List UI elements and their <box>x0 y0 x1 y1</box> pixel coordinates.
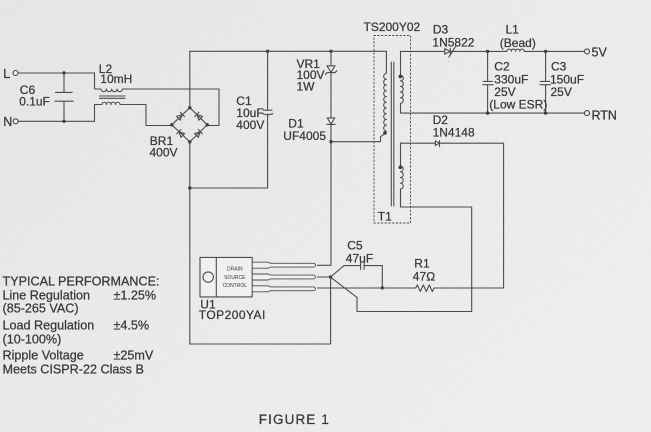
svg-text:N: N <box>3 115 12 129</box>
svg-text:D3: D3 <box>433 22 449 36</box>
svg-text:10mH: 10mH <box>100 72 132 86</box>
svg-text:400V: 400V <box>236 118 264 132</box>
label T1 <box>378 210 392 224</box>
svg-text:1N4148: 1N4148 <box>433 126 475 140</box>
node L terminal <box>13 71 18 76</box>
node RTN terminal <box>585 111 590 116</box>
inductor L1 <box>507 49 524 51</box>
svg-text:(Bead): (Bead) <box>500 36 536 50</box>
label C1 value <box>236 94 264 132</box>
label TS200Y02 <box>364 20 421 34</box>
node T1 primary dot <box>383 131 387 135</box>
capacitor C3 <box>540 51 550 113</box>
label RTN <box>592 108 617 122</box>
wire D3 to L1 <box>450 50 507 52</box>
svg-text:T1: T1 <box>378 210 392 224</box>
op-amp U1 package body <box>200 257 252 297</box>
label D1 value <box>283 117 326 143</box>
diode D1 <box>327 73 335 266</box>
transformer T1 dashed box <box>374 36 411 224</box>
svg-text:Load Regulation: Load Regulation <box>3 318 95 332</box>
diode BR1 top-left <box>176 112 184 120</box>
svg-text:(10-100%): (10-100%) <box>3 333 62 347</box>
label 5V <box>592 46 608 60</box>
wire bias return <box>331 189 472 312</box>
pin U1 drain lead <box>253 262 316 268</box>
node N junction <box>62 120 65 123</box>
label L2 value <box>99 62 133 86</box>
wire RTN line <box>401 112 585 114</box>
svg-text:UF4005: UF4005 <box>283 129 326 143</box>
wire bias to D2 <box>401 142 436 144</box>
node source junction <box>329 275 332 278</box>
wire HV rail <box>190 50 387 52</box>
capacitor C6 <box>55 73 73 121</box>
wire L1 to 5V <box>524 50 584 52</box>
node L junction <box>62 71 65 74</box>
wire choke to bridge right <box>207 89 219 126</box>
svg-text:(Low ESR): (Low ESR) <box>489 97 547 111</box>
diode BR1 bottom-left <box>177 130 185 138</box>
wire bridge minus <box>189 142 191 344</box>
svg-text:DRAIN: DRAIN <box>227 267 243 273</box>
wire L to choke <box>94 73 96 89</box>
svg-text:TOP200YAI: TOP200YAI <box>199 308 266 322</box>
svg-text:L: L <box>3 67 10 81</box>
label VR1 value <box>297 57 325 93</box>
wire source to C5 <box>331 266 361 277</box>
label U1 pin names <box>223 267 248 289</box>
node T1 bias dot <box>399 166 403 170</box>
node 5V terminal <box>585 49 590 54</box>
wire control pin <box>317 287 415 289</box>
pin U1 source lead <box>253 274 316 280</box>
label L1 value <box>500 22 536 50</box>
svg-text:Meets CISPR-22 Class B: Meets CISPR-22 Class B <box>3 363 144 377</box>
svg-text:25V: 25V <box>551 85 572 99</box>
svg-text:C3: C3 <box>551 59 567 73</box>
svg-text:±25mV: ±25mV <box>114 349 154 363</box>
label U1 value <box>199 298 266 322</box>
node C3 bottom junction <box>544 111 547 114</box>
wire D2 to feedback <box>440 143 504 288</box>
capacitor C2 <box>483 51 493 113</box>
label D3 value <box>432 22 474 49</box>
svg-text:RTN: RTN <box>592 108 617 122</box>
pin U1 control lead <box>253 286 316 292</box>
svg-text:47Ω: 47Ω <box>413 269 436 283</box>
label C3 value <box>550 59 584 99</box>
svg-text:1N5822: 1N5822 <box>432 36 474 50</box>
node drain clamp junction <box>329 140 332 143</box>
svg-text:±4.5%: ±4.5% <box>114 318 150 332</box>
transformer T1 primary winding <box>384 51 387 131</box>
node C3 top junction <box>544 50 547 53</box>
capacitor C1 <box>190 51 273 188</box>
label C5 value <box>346 239 373 266</box>
node BR1 vertices <box>170 106 209 144</box>
bridge BR1 body <box>172 108 207 142</box>
node C2 top junction <box>486 50 489 53</box>
wire drain stub <box>317 264 331 266</box>
diode D2 <box>435 141 439 147</box>
inductor L2 top winding <box>95 89 220 92</box>
label N <box>3 115 12 129</box>
svg-text:L1: L1 <box>506 22 520 36</box>
svg-text:0.1uF: 0.1uF <box>19 95 50 109</box>
svg-text:SOURCE: SOURCE <box>224 275 246 281</box>
inductor L2 bottom winding <box>95 102 172 125</box>
wire L input <box>18 72 94 74</box>
diode BR1 top-right <box>195 112 203 120</box>
transformer T1 core <box>391 62 394 206</box>
svg-text:TS200Y02: TS200Y02 <box>364 20 421 34</box>
label L <box>3 67 10 81</box>
svg-text:47uF: 47uF <box>346 251 373 265</box>
transformer T1 bias winding <box>401 143 404 207</box>
svg-text:Ripple Voltage: Ripple Voltage <box>3 349 84 363</box>
svg-text:CONTROL: CONTROL <box>223 283 248 289</box>
svg-text:1W: 1W <box>297 79 316 93</box>
wire secondary to D3 <box>401 50 445 52</box>
label performance notes <box>3 275 160 377</box>
node rail VR1 junction <box>329 50 332 53</box>
inductor L2 core <box>100 96 126 98</box>
capacitor C5 <box>361 262 383 288</box>
node minus rail junction <box>188 186 191 189</box>
label BR1 value <box>150 134 178 159</box>
node C2 bottom junction <box>486 111 489 114</box>
transformer T1 secondary winding <box>401 51 404 113</box>
diode D3 <box>445 47 456 58</box>
label R1 value <box>413 256 436 283</box>
svg-text:400V: 400V <box>150 146 178 160</box>
wire bridge plus <box>189 51 191 107</box>
wire source return <box>190 278 331 344</box>
label D2 value <box>433 113 475 140</box>
svg-text:±1.25%: ±1.25% <box>114 288 157 302</box>
wire source stub <box>317 276 330 278</box>
zener VR1 <box>325 51 336 74</box>
svg-text:FIGURE 1: FIGURE 1 <box>259 412 330 427</box>
label figure caption <box>259 412 330 427</box>
node T1 secondary dot <box>399 75 403 79</box>
svg-text:5V: 5V <box>592 46 608 60</box>
svg-text:C2: C2 <box>494 59 510 73</box>
resistor R1 <box>416 285 504 292</box>
label C6 value <box>19 83 50 109</box>
wire N input <box>18 120 94 122</box>
label C2 value <box>489 59 547 111</box>
node control junction <box>381 286 384 289</box>
svg-text:(85-265 VAC): (85-265 VAC) <box>3 302 79 316</box>
node rail C1 junction <box>266 50 269 53</box>
wire primary return to clamp <box>331 133 385 142</box>
svg-text:TYPICAL PERFORMANCE:: TYPICAL PERFORMANCE: <box>3 275 160 289</box>
svg-text:R1: R1 <box>414 256 430 270</box>
diode BR1 bottom-right <box>194 130 202 138</box>
node N terminal <box>13 119 18 124</box>
svg-text:Line Regulation: Line Regulation <box>3 288 91 302</box>
